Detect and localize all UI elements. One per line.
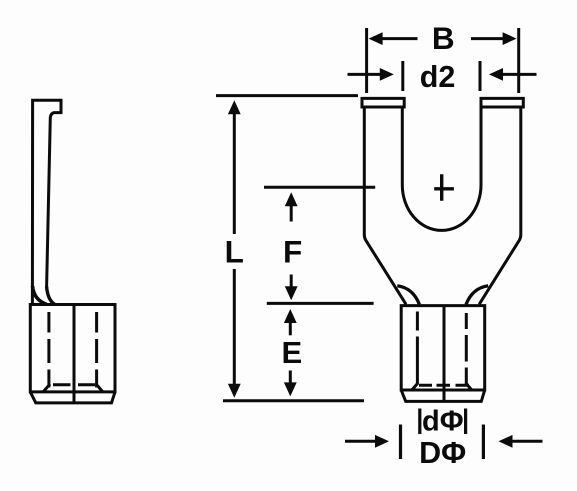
side view tongue outline bbox=[32, 100, 61, 304]
fork outer right edge and taper bbox=[479, 107, 521, 304]
dim E arrowhead up bbox=[284, 309, 297, 323]
front barrel outline bbox=[401, 306, 485, 390]
dim E arrow lower bbox=[289, 371, 292, 384]
dim DPhi right arrowhead bbox=[499, 435, 513, 448]
dim F arrowhead down bbox=[285, 286, 298, 300]
dim d2 right bar bbox=[479, 61, 482, 91]
side view barrel center seam bbox=[73, 305, 76, 403]
svg-text:E: E bbox=[281, 335, 302, 370]
svg-text:DΦ: DΦ bbox=[419, 436, 466, 470]
fork slot U bbox=[402, 107, 481, 230]
dim d2 left bar bbox=[401, 61, 404, 91]
front barrel bottom dashes bbox=[419, 384, 469, 387]
side view fillet left bbox=[33, 286, 47, 304]
dim DPhi right arrow bbox=[513, 440, 543, 443]
dim L arrowhead down bbox=[228, 384, 241, 398]
side view barrel inner dashed right bbox=[95, 312, 98, 388]
dim B right arrow bbox=[471, 37, 504, 40]
side view fillet right bbox=[47, 287, 55, 305]
dim DPhi left arrowhead bbox=[375, 435, 389, 448]
dim d2 right arrowhead bbox=[489, 68, 503, 81]
svg-text:B: B bbox=[432, 20, 455, 56]
dim B right arrowhead bbox=[503, 32, 517, 45]
dim d2 left arrow bbox=[348, 73, 381, 76]
dim bottom extension line bbox=[223, 399, 364, 402]
front barrel flare bbox=[401, 390, 485, 401]
dim F arrow upper bbox=[290, 205, 293, 222]
svg-text:L: L bbox=[225, 234, 244, 270]
front barrel bottom slants bbox=[412, 384, 472, 390]
side view barrel flare bbox=[30, 392, 115, 403]
dim d2 right arrow bbox=[503, 73, 537, 76]
right wing bbox=[466, 286, 488, 305]
dim DPhi right bar bbox=[482, 425, 485, 460]
fork outer left edge and taper bbox=[364, 107, 406, 304]
dim L arrow lower bbox=[233, 269, 236, 386]
dim DPhi left arrow bbox=[345, 440, 376, 443]
dim E arrowhead down bbox=[284, 382, 297, 396]
svg-text:d2: d2 bbox=[420, 60, 456, 94]
dim L arrow upper bbox=[233, 113, 236, 234]
dim L top extension line bbox=[216, 94, 358, 97]
side view barrel bottom dashes bbox=[53, 383, 95, 386]
dim dPhi right bar bbox=[464, 409, 467, 435]
left wing bbox=[397, 286, 419, 305]
fork left tip cap bbox=[362, 98, 404, 107]
dim B left arrowhead bbox=[369, 32, 383, 45]
dim E arrow upper bbox=[289, 322, 292, 336]
dim F arrowhead up bbox=[285, 192, 298, 206]
front barrel center seam bbox=[443, 306, 446, 402]
dim E top extension line bbox=[267, 302, 374, 305]
front barrel inner line left bbox=[416, 312, 419, 385]
dim F arrow lower bbox=[290, 275, 293, 288]
dim B right bar bbox=[517, 28, 520, 93]
side view barrel bottom slants bbox=[44, 384, 103, 392]
dim B left bar bbox=[365, 28, 368, 93]
dim L arrowhead up bbox=[228, 100, 241, 114]
dim F top extension line bbox=[264, 186, 375, 189]
center mark bbox=[434, 174, 454, 201]
svg-text:F: F bbox=[283, 234, 302, 270]
side view barrel outline bbox=[30, 305, 115, 392]
dim d2 left arrowhead bbox=[380, 68, 394, 81]
dim dPhi left bar bbox=[418, 409, 421, 435]
svg-text:dΦ: dΦ bbox=[422, 406, 464, 438]
side view barrel inner dashed left bbox=[47, 312, 50, 388]
front barrel inner line right bbox=[465, 313, 468, 385]
fork right tip cap bbox=[481, 98, 523, 107]
dim B left arrow bbox=[382, 37, 418, 40]
dim DPhi left bar bbox=[399, 425, 402, 460]
